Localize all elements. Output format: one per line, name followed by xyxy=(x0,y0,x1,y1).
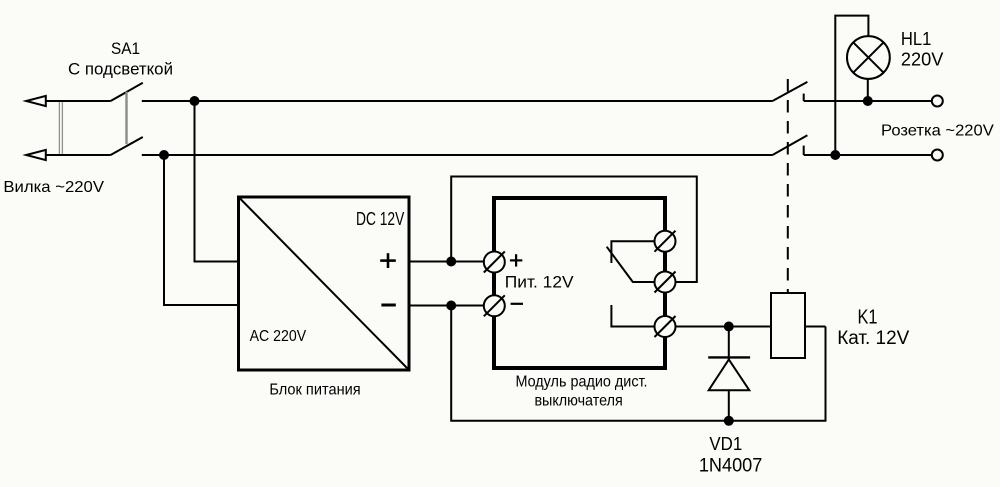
wire: PSU + output xyxy=(410,261,484,263)
label plus PSU output xyxy=(380,253,396,268)
lamp HL1 xyxy=(847,36,890,79)
node: top rail to PSU xyxy=(190,96,200,106)
switch SA1 bottom blade xyxy=(111,137,143,155)
svg-text:HL1: HL1 xyxy=(901,29,932,49)
terminal X1 + (left top) xyxy=(484,252,505,273)
wire: top phase rail xyxy=(142,100,773,102)
svg-text:Модуль радио дист.: Модуль радио дист. xyxy=(515,373,647,390)
terminal X5 (right bottom) xyxy=(655,316,676,337)
wire: module bottom terminal to relay xyxy=(676,326,772,328)
socket terminal bottom xyxy=(932,150,943,161)
diode VD1 cathode bar xyxy=(708,356,750,358)
plug prong top arrow xyxy=(26,96,46,106)
wire: plug top to switch xyxy=(45,100,111,102)
wire: lamp top loop to bottom rail xyxy=(835,16,868,155)
socket terminal top xyxy=(932,96,943,107)
wire: PSU - output xyxy=(410,305,484,307)
relay K1 coil xyxy=(771,293,805,358)
plug backlight lamp (gray double line) xyxy=(58,101,60,155)
label minus PSU output xyxy=(381,304,395,307)
node: bottom rail to PSU xyxy=(159,150,169,160)
power supply diagonal xyxy=(240,199,408,369)
svg-text:SA1: SA1 xyxy=(111,39,140,58)
wire: top rail after contact to socket xyxy=(804,100,932,102)
svg-text:DC 12V: DC 12V xyxy=(356,209,404,229)
svg-text:Кат. 12V: Кат. 12V xyxy=(837,328,909,349)
relay contact bottom blade xyxy=(773,135,808,155)
svg-text:С подсветкой: С подсветкой xyxy=(68,60,173,79)
terminal X2 - (left bottom) xyxy=(484,295,505,316)
svg-text:220V: 220V xyxy=(901,49,944,69)
node: lamp bottom junction xyxy=(830,150,840,160)
diode VD1 bottom lead xyxy=(728,390,730,421)
svg-text:K1: K1 xyxy=(858,307,878,329)
svg-text:Блок питания: Блок питания xyxy=(269,382,360,399)
svg-text:выключателя: выключателя xyxy=(534,393,622,410)
svg-text:VD1: VD1 xyxy=(709,434,742,454)
module internal wire bottom terminal xyxy=(611,305,654,327)
relay contact top fixed tick xyxy=(803,94,805,101)
lamp HL1 lead bottom xyxy=(867,79,869,101)
node: diode bottom junction xyxy=(724,416,734,426)
node: diode top junction xyxy=(724,322,734,332)
relay contact top blade xyxy=(773,82,808,101)
wire: top rail down to PSU input xyxy=(195,101,238,262)
module internal contact: top terminal wire xyxy=(611,241,654,263)
svg-text:Вилка ~220V: Вилка ~220V xyxy=(3,179,104,196)
switch SA1 top blade xyxy=(111,83,143,101)
wire: - down to bottom rail and right to relay xyxy=(451,306,825,421)
terminal X3 (right top) xyxy=(655,231,676,252)
node: + junction xyxy=(446,257,456,267)
module internal contact blade xyxy=(607,247,634,283)
node: - junction xyxy=(446,301,456,311)
svg-text:1N4007: 1N4007 xyxy=(699,455,763,476)
module A1 box xyxy=(494,198,665,368)
wire: + up over module to middle terminal xyxy=(451,177,697,283)
diode VD1 top lead xyxy=(728,327,730,360)
wire: relay right lead xyxy=(805,326,826,328)
power supply U1 box xyxy=(239,197,410,370)
svg-text:Розетка ~220V: Розетка ~220V xyxy=(881,123,994,140)
relay contact bottom fixed tick xyxy=(803,146,805,155)
svg-text:AC 220V: AC 220V xyxy=(250,328,307,345)
wire: bottom neutral rail xyxy=(142,154,773,156)
wire: bottom rail down to PSU input xyxy=(164,155,237,305)
label plus module xyxy=(510,254,522,266)
dashed link contacts to relay coil xyxy=(787,79,789,293)
svg-text:Пит. 12V: Пит. 12V xyxy=(505,272,574,291)
wire: bottom rail after contact to socket xyxy=(804,154,932,156)
module internal wire to middle terminal xyxy=(633,281,655,283)
plug prong bottom arrow xyxy=(26,150,46,160)
node: lamp top junction xyxy=(863,96,873,106)
label minus module xyxy=(511,303,523,305)
wire: plug bottom to switch xyxy=(45,154,111,156)
diode VD1 triangle xyxy=(709,360,750,391)
switch SA1 mechanical link (gray) xyxy=(125,92,127,145)
terminal X4 (right middle) xyxy=(655,272,676,293)
